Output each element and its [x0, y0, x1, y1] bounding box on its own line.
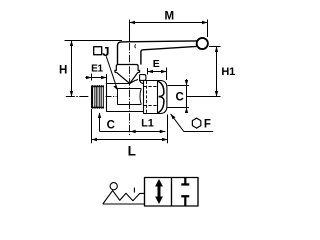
- svg-text:M: M: [165, 11, 175, 23]
- svg-text:L: L: [128, 144, 136, 159]
- svg-text:J: J: [102, 44, 109, 59]
- svg-text:C: C: [107, 119, 115, 131]
- svg-text:C: C: [176, 92, 184, 104]
- svg-text:E1: E1: [91, 64, 103, 75]
- svg-text:H1: H1: [221, 66, 235, 78]
- svg-text:E: E: [153, 58, 160, 70]
- svg-text:F: F: [204, 119, 211, 131]
- svg-text:H: H: [59, 65, 67, 77]
- svg-text:L1: L1: [141, 118, 154, 130]
